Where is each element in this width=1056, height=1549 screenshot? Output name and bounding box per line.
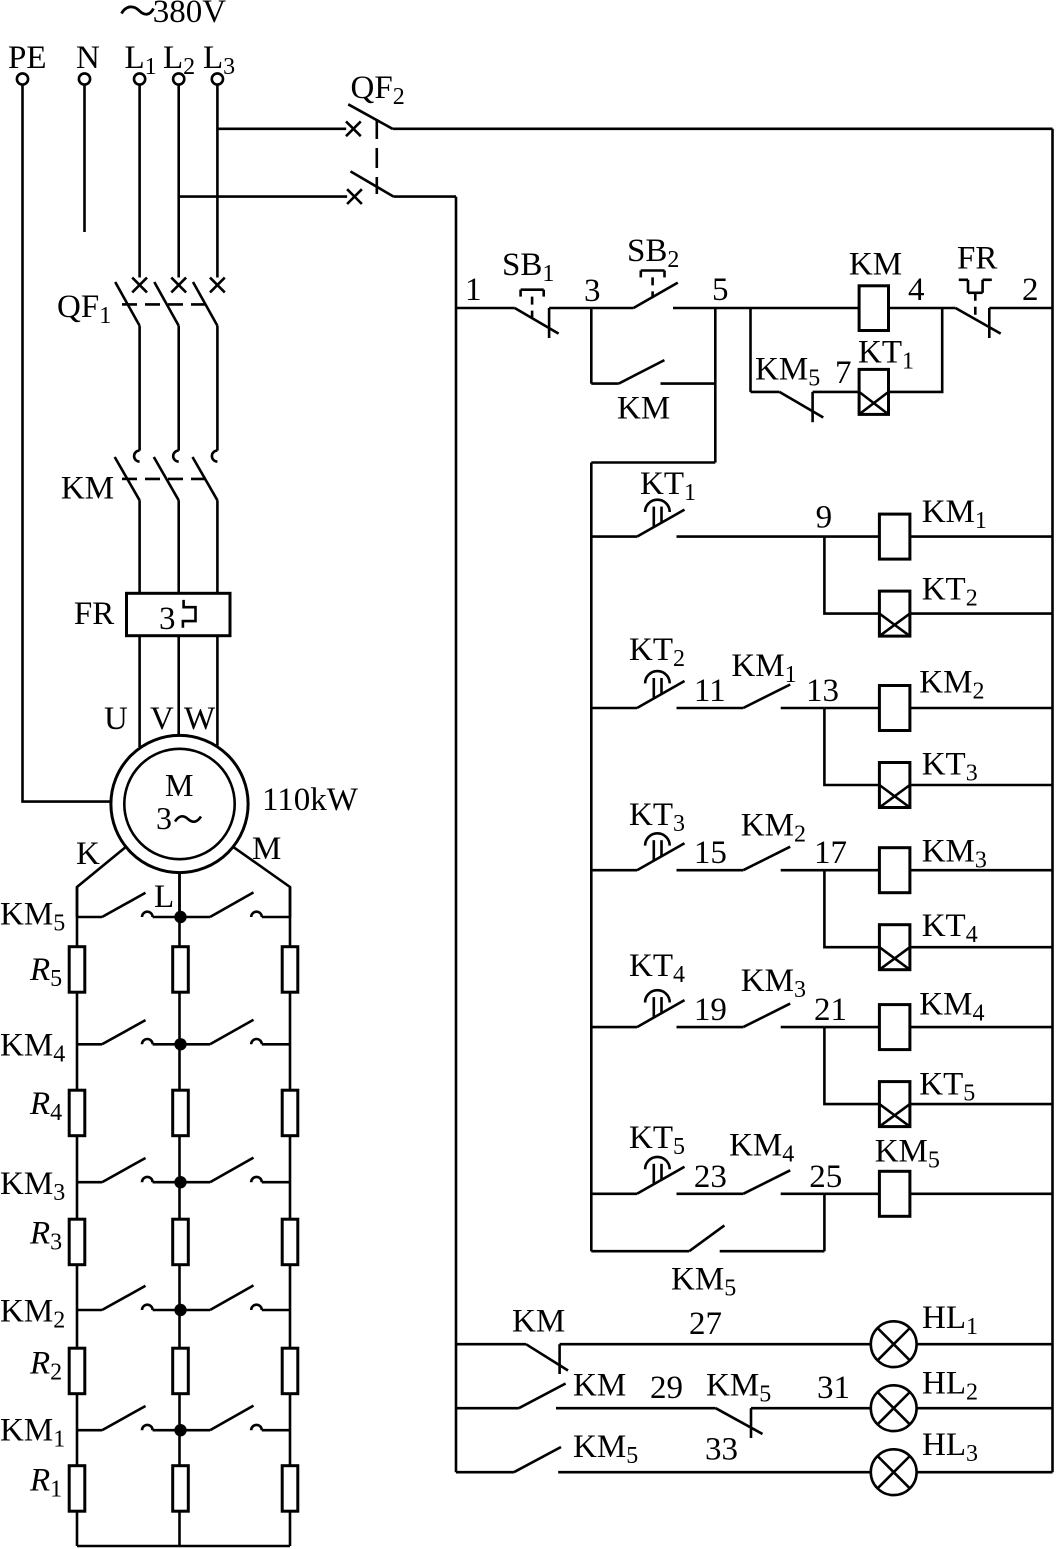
- wire KM1 contact to node: [781, 707, 825, 710]
- svg-text:KM5: KM5: [573, 1429, 638, 1469]
- label node 3: [584, 273, 601, 309]
- label QF1: [57, 289, 111, 329]
- label node 25: [809, 1159, 842, 1195]
- svg-text:3: 3: [584, 273, 601, 309]
- label M motor: [165, 767, 193, 803]
- wire rail to KM lamp contact 2: [456, 1407, 519, 1410]
- svg-text:R2: R2: [29, 1346, 62, 1386]
- wire KT2 coil to right rail: [910, 612, 1053, 615]
- label KM5 self-holding: [671, 1262, 736, 1302]
- contact KM (NO) lamp row 2: [519, 1384, 566, 1409]
- svg-text:KM: KM: [61, 470, 114, 506]
- breaker QF2 pole 2 fixed contact: [347, 189, 362, 204]
- wire KM3 coil to right rail: [910, 869, 1053, 872]
- label node 29: [650, 1370, 683, 1406]
- wire U phase: [138, 636, 141, 747]
- wire resistor bank centre column: [178, 872, 181, 1547]
- label node 31: [817, 1370, 850, 1406]
- wire FR to right rail: [989, 307, 1052, 310]
- label node 19: [694, 992, 727, 1028]
- svg-text:13: 13: [806, 673, 839, 709]
- svg-text:R1: R1: [29, 1462, 62, 1502]
- label KM5 lamp row 3: [573, 1429, 638, 1469]
- label KM5 branch: [755, 351, 820, 391]
- svg-text:KM4: KM4: [0, 1028, 65, 1068]
- svg-text:R5: R5: [29, 952, 62, 992]
- svg-text:5: 5: [712, 272, 729, 308]
- svg-text:KM5: KM5: [755, 351, 820, 391]
- label FR main: [74, 596, 114, 632]
- svg-text:110kW: 110kW: [262, 782, 359, 818]
- timer contact KT5 (delayed NO): [591, 1157, 684, 1194]
- terminal PE: [17, 73, 28, 84]
- svg-text:L: L: [154, 879, 174, 915]
- wire rotor lead K: [77, 846, 127, 917]
- svg-text:QF1: QF1: [57, 289, 111, 329]
- label KM2: [0, 1294, 65, 1334]
- svg-text:KM1: KM1: [0, 1413, 65, 1453]
- wire KM contact to KM5 contact: [556, 1407, 716, 1410]
- coil KT5 (time relay): [879, 1082, 910, 1127]
- junction node row KM5: [174, 911, 186, 923]
- svg-text:KM1: KM1: [731, 648, 796, 688]
- wire KM5 contact to HL3: [558, 1471, 871, 1474]
- label KM1 coil: [922, 494, 987, 534]
- svg-text:PE: PE: [8, 40, 47, 76]
- wire junction to KM5 branch: [749, 308, 752, 392]
- svg-text:SB1: SB1: [502, 247, 554, 287]
- label KM3 coil: [922, 834, 987, 874]
- coil KT2 (time relay): [879, 591, 910, 636]
- svg-text:KM4: KM4: [919, 987, 984, 1027]
- contact KM self-holding (NO): [591, 360, 715, 384]
- svg-text:KM5: KM5: [875, 1134, 940, 1174]
- label KM self-holding: [617, 390, 670, 426]
- coil KM4: [879, 1005, 910, 1050]
- wire rail to SB1: [456, 307, 515, 310]
- timer contact KT4 (delayed NO): [591, 990, 684, 1027]
- contact KM1 (NO) in row 2: [743, 685, 790, 709]
- wire rotor lead L: [178, 872, 181, 918]
- label node 27: [689, 1306, 722, 1342]
- contactor KM main contacts: [115, 451, 218, 594]
- terminal L2: [173, 73, 184, 84]
- svg-text:M: M: [252, 831, 281, 867]
- label KM5: [0, 897, 65, 937]
- svg-text:FR: FR: [957, 241, 997, 277]
- wire rail to KM lamp contact: [456, 1343, 526, 1346]
- wire node to KM3 coil: [824, 869, 879, 872]
- label KM2 coil: [919, 664, 984, 704]
- wire resistor bank bottom bus: [77, 1545, 290, 1548]
- label node 4: [908, 272, 925, 308]
- label node 21: [814, 992, 847, 1028]
- svg-text:KM: KM: [512, 1304, 565, 1340]
- svg-text:KM2: KM2: [919, 664, 984, 704]
- svg-text:R4: R4: [29, 1086, 62, 1126]
- label node 13: [806, 673, 839, 709]
- svg-text:7: 7: [835, 355, 852, 391]
- contactor KM4 shorting contacts: [77, 1020, 290, 1045]
- wire QF2 pole 2 to left rail: [394, 195, 456, 198]
- wire KT2 contact to KM1 contact: [677, 707, 744, 710]
- resistor R4 group: [69, 1090, 298, 1136]
- timer contact KT3 (delayed NO): [591, 833, 684, 870]
- terminal L3: [212, 73, 223, 84]
- label 110kW: [262, 782, 359, 818]
- svg-text:KM: KM: [849, 246, 902, 282]
- svg-text:QF2: QF2: [351, 70, 405, 110]
- wire KM5 contact to HL2: [751, 1407, 871, 1410]
- svg-text:KT4: KT4: [629, 948, 685, 988]
- junction node row KM2: [174, 1304, 186, 1316]
- label KM4: [0, 1028, 65, 1068]
- label node 15: [694, 835, 727, 871]
- label PE: [8, 40, 47, 76]
- wire L3 to QF2 pole 1: [217, 128, 346, 131]
- wire node 5 to KT rail: [591, 461, 715, 464]
- label KT2 contact: [629, 632, 685, 672]
- svg-text:KM1: KM1: [922, 494, 987, 534]
- wire KM2 contact to node: [781, 869, 825, 872]
- svg-text:KT1: KT1: [640, 466, 696, 506]
- label KM1 contact: [731, 648, 796, 688]
- svg-text:L2: L2: [163, 40, 195, 80]
- lamp HL3: [871, 1449, 917, 1495]
- label KM3: [0, 1166, 65, 1206]
- contactor KM linkage (dashed): [122, 478, 211, 481]
- label node 1: [465, 272, 482, 308]
- contact KM (NC) lamp row 1: [526, 1344, 568, 1374]
- pushbutton SB1 (NC): [515, 290, 559, 338]
- svg-text:380V: 380V: [153, 0, 227, 30]
- contact KM4 (NO) in row 5: [743, 1170, 790, 1194]
- svg-text:V: V: [150, 701, 174, 737]
- wire KT rail: [590, 463, 593, 1252]
- svg-text:19: 19: [694, 992, 727, 1028]
- svg-text:KM2: KM2: [741, 808, 806, 848]
- wire node 5 down: [714, 308, 717, 463]
- resistor R3 group: [69, 1219, 298, 1265]
- timer contact KT1 (delayed NO): [591, 500, 684, 537]
- wire KT1 coil to node 4: [889, 308, 943, 392]
- junction node row KM1: [174, 1424, 186, 1436]
- label SB2: [627, 233, 679, 273]
- timer contact KT2 (delayed NO): [591, 671, 684, 708]
- label L2: [163, 40, 195, 80]
- svg-text:KM4: KM4: [729, 1128, 794, 1168]
- wire KT3 contact to KM2 contact: [677, 869, 744, 872]
- label HL2: [922, 1366, 978, 1406]
- wire node to KM2 coil: [824, 707, 879, 710]
- svg-text:33: 33: [705, 1432, 738, 1468]
- svg-text:21: 21: [814, 992, 847, 1028]
- wire node to KM5 coil: [824, 1193, 879, 1196]
- wire QF2 pole 1 to right rail: [393, 128, 1053, 131]
- wire SB1 to SB2: [549, 307, 633, 310]
- label SB1: [502, 247, 554, 287]
- svg-text:U: U: [104, 701, 128, 737]
- svg-text:W: W: [184, 701, 216, 737]
- wire node to KM1 coil: [824, 535, 879, 538]
- svg-text:HL1: HL1: [922, 1300, 978, 1340]
- wire resistor bank right column: [289, 887, 292, 1546]
- lamp HL2: [871, 1385, 917, 1431]
- terminal N: [79, 73, 90, 84]
- label L3: [203, 40, 235, 80]
- label KM2 contact: [741, 808, 806, 848]
- svg-text:KM3: KM3: [922, 834, 987, 874]
- lamp HL1: [871, 1321, 917, 1367]
- wire node down to KT2 coil: [824, 537, 879, 614]
- label node 33: [705, 1432, 738, 1468]
- contactor KM2 shorting contacts: [77, 1285, 290, 1310]
- wire L2: [177, 85, 180, 278]
- wire KM contact to HL1: [560, 1343, 871, 1346]
- svg-text:HL3: HL3: [922, 1427, 978, 1467]
- svg-text:L3: L3: [203, 40, 235, 80]
- label 3~ motor: [156, 800, 201, 836]
- thermal contact FR (NC): [956, 280, 1001, 338]
- label KT2 coil: [922, 571, 978, 611]
- svg-text:25: 25: [809, 1159, 842, 1195]
- label KT1 coil: [858, 335, 914, 375]
- label KM main: [61, 470, 114, 506]
- svg-text:KT1: KT1: [858, 335, 914, 375]
- svg-text:KT5: KT5: [629, 1120, 685, 1160]
- label KM5 coil: [875, 1134, 940, 1174]
- wire KM coil to FR: [889, 307, 956, 310]
- coil KM1: [879, 514, 910, 559]
- label L: [154, 879, 174, 915]
- wire node down to KT3 coil: [824, 708, 879, 785]
- label KM3 contact: [741, 963, 806, 1003]
- breaker QF1 linkage (dashed): [122, 303, 211, 306]
- wire KM5 coil to right rail: [910, 1193, 1053, 1196]
- thermal relay FR heater symbol: [183, 600, 196, 628]
- coil KM3: [879, 848, 910, 893]
- label KT5 coil: [919, 1067, 975, 1107]
- svg-text:N: N: [76, 40, 100, 76]
- label node 23: [694, 1159, 727, 1195]
- svg-text:KM3: KM3: [741, 963, 806, 1003]
- svg-text:L1: L1: [125, 40, 157, 80]
- resistor R2 group: [69, 1348, 298, 1394]
- svg-text:3: 3: [159, 601, 176, 637]
- label ~380V supply: [122, 0, 227, 30]
- svg-text:R3: R3: [29, 1216, 62, 1256]
- svg-text:23: 23: [694, 1159, 727, 1195]
- label KM lamp row 1: [512, 1304, 565, 1340]
- svg-text:4: 4: [908, 272, 925, 308]
- wire PE: [23, 85, 112, 802]
- label R2: [29, 1346, 62, 1386]
- svg-text:HL2: HL2: [922, 1366, 978, 1406]
- label KM4 coil: [919, 987, 984, 1027]
- label FR contact: [957, 241, 997, 277]
- label node 5: [712, 272, 729, 308]
- contactor KM5 shorting contacts: [77, 892, 290, 917]
- breaker QF2 pole 1 blade: [348, 104, 392, 129]
- contact KM3 (NO) in row 4: [743, 1004, 790, 1028]
- thermal relay FR box: [127, 593, 231, 635]
- coil KM: [859, 286, 888, 331]
- svg-text:KM2: KM2: [0, 1294, 65, 1334]
- svg-text:KM5: KM5: [0, 897, 65, 937]
- label KT3 contact: [629, 797, 685, 837]
- label node 9: [816, 500, 833, 536]
- breaker QF2 linkage (dashed): [375, 119, 378, 194]
- wire N: [83, 85, 86, 232]
- label R3: [29, 1216, 62, 1256]
- wire node to KM4 coil: [824, 1026, 879, 1029]
- label HL1: [922, 1300, 978, 1340]
- svg-text:SB2: SB2: [627, 233, 679, 273]
- label KM4 contact: [729, 1128, 794, 1168]
- wire KM3 contact to node: [781, 1026, 825, 1029]
- coil KT3 (time relay): [879, 763, 910, 808]
- svg-text:KT5: KT5: [919, 1067, 975, 1107]
- wire L3: [216, 85, 219, 278]
- label 3 inside FR: [159, 601, 176, 637]
- wire KT4 coil to right rail: [910, 946, 1053, 949]
- wire resistor bank left column: [76, 887, 79, 1546]
- label R1: [29, 1462, 62, 1502]
- wire KT1 contact to node 9: [677, 535, 825, 538]
- wire rail to KM5 lamp contact: [456, 1471, 514, 1474]
- contact KM5 (NO) lamp row 3: [514, 1447, 561, 1472]
- coil KT4 (time relay): [879, 925, 910, 970]
- label V: [150, 701, 174, 737]
- breaker QF1 3-pole: [115, 278, 225, 451]
- contact KM2 (NO) in row 3: [743, 847, 790, 871]
- wire HL3 to right rail: [917, 1471, 1053, 1474]
- svg-text:KT3: KT3: [629, 797, 685, 837]
- wire SB2 to KM coil: [673, 307, 859, 310]
- wire KM1 coil to right rail: [910, 535, 1053, 538]
- wire KM4 coil to right rail: [910, 1026, 1053, 1029]
- label KM5 lamp row 2: [706, 1368, 771, 1408]
- label QF2: [351, 70, 405, 110]
- wire V phase: [177, 636, 180, 735]
- label K: [76, 836, 100, 872]
- label R5: [29, 952, 62, 992]
- motor M outer circle: [111, 735, 248, 872]
- label KM lamp row 2: [573, 1368, 626, 1404]
- label node 17: [814, 835, 847, 871]
- label node 7: [835, 355, 852, 391]
- breaker QF2 pole 1 fixed contact: [346, 121, 361, 136]
- motor M inner circle: [124, 749, 234, 859]
- label KM coil: [849, 246, 902, 282]
- junction node row KM3: [174, 1176, 186, 1188]
- wire KT5 contact to KM4 contact: [677, 1193, 744, 1196]
- svg-text:29: 29: [650, 1370, 683, 1406]
- wire node 3 down: [590, 308, 593, 384]
- svg-text:2: 2: [1022, 272, 1039, 308]
- label M rotor: [252, 831, 281, 867]
- wire control right rail: [1051, 129, 1054, 1472]
- contact KM5 (NC) in KT1 branch: [751, 392, 860, 422]
- svg-text:KM5: KM5: [671, 1262, 736, 1302]
- label node 2: [1022, 272, 1039, 308]
- svg-text:FR: FR: [74, 596, 114, 632]
- svg-text:KT2: KT2: [922, 571, 978, 611]
- wire KT5 coil to right rail: [910, 1103, 1053, 1106]
- wire KM2 coil to right rail: [910, 707, 1053, 710]
- coil KM5: [879, 1171, 910, 1216]
- resistor R1 group: [69, 1466, 298, 1512]
- label U: [104, 701, 128, 737]
- contactor KM3 shorting contacts: [77, 1158, 290, 1183]
- label KM1: [0, 1413, 65, 1453]
- wire L1: [138, 85, 141, 278]
- svg-text:11: 11: [694, 673, 726, 709]
- svg-text:K: K: [76, 836, 100, 872]
- label N: [76, 40, 100, 76]
- contact KM5 self-holding (NO): [591, 1194, 824, 1251]
- label R4: [29, 1086, 62, 1126]
- wire HL1 to right rail: [917, 1343, 1053, 1346]
- svg-text:9: 9: [816, 500, 833, 536]
- coil KT1 (time relay): [859, 369, 888, 414]
- svg-text:KT2: KT2: [629, 632, 685, 672]
- svg-text:KT3: KT3: [922, 747, 978, 787]
- wire node down to KT4 coil: [824, 870, 879, 947]
- label KT4 coil: [922, 908, 978, 948]
- wire L2 to QF2 pole 2: [179, 195, 347, 198]
- terminal L1: [134, 73, 145, 84]
- wire W phase: [216, 636, 219, 746]
- svg-text:M: M: [165, 767, 193, 803]
- svg-text:31: 31: [817, 1370, 850, 1406]
- label KT5 contact: [629, 1120, 685, 1160]
- wire node down to KT5 coil: [824, 1027, 879, 1104]
- label KT1 contact: [640, 466, 696, 506]
- svg-text:KM: KM: [617, 390, 670, 426]
- svg-text:KM: KM: [573, 1368, 626, 1404]
- svg-text:KM5: KM5: [706, 1368, 771, 1408]
- svg-text:27: 27: [689, 1306, 722, 1342]
- svg-text:15: 15: [694, 835, 727, 871]
- wire control left rail: [455, 197, 458, 1473]
- wire KT3 coil to right rail: [910, 784, 1053, 787]
- svg-text:KM3: KM3: [0, 1166, 65, 1206]
- label node 11: [694, 673, 726, 709]
- wire rotor lead M: [233, 846, 291, 917]
- wire KT4 contact to KM3 contact: [677, 1026, 744, 1029]
- junction node row KM4: [174, 1038, 186, 1050]
- label KT4 contact: [629, 948, 685, 988]
- coil KM2: [879, 686, 910, 731]
- contactor KM1 shorting contacts: [77, 1406, 290, 1431]
- breaker QF2 pole 2 blade: [351, 171, 394, 196]
- svg-text:1: 1: [465, 272, 482, 308]
- pushbutton SB2 (NO): [634, 271, 678, 309]
- contact KM5 (NC) lamp row 2: [716, 1408, 763, 1438]
- label KT3 coil: [922, 747, 978, 787]
- label W: [184, 701, 216, 737]
- svg-text:KT4: KT4: [922, 908, 978, 948]
- svg-text:17: 17: [814, 835, 847, 871]
- resistor R5 group: [69, 947, 298, 993]
- label HL3: [922, 1427, 978, 1467]
- svg-text:3: 3: [156, 800, 172, 836]
- wire KM4 contact to node: [781, 1193, 825, 1196]
- wire HL2 to right rail: [917, 1407, 1053, 1410]
- label L1: [125, 40, 157, 80]
